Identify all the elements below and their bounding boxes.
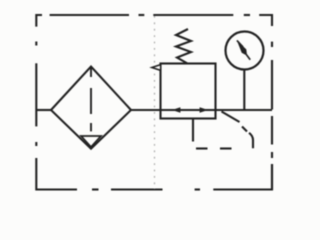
gauge needle pivot line (237, 40, 243, 47)
wire : line from filter to regulator (131, 109, 161, 111)
gauge needle (237, 40, 247, 56)
enclosure border : right edge (271, 42, 273, 190)
pilot line : horizontal dash 1 (220, 147, 232, 149)
pilot line (dashed feedback loop) : diagonal dash 1 (222, 112, 240, 123)
wire : flow path through regulator body (161, 109, 216, 111)
wire : inlet line from left border to filter (36, 109, 51, 111)
pilot line : diagonal dash 2 (242, 127, 247, 132)
vent stub below regulator (192, 119, 194, 142)
filter F1 body (diamond) (51, 67, 131, 149)
pressure gauge G1 (circle) (226, 32, 264, 70)
filter element (dashed vertical line) (90, 68, 92, 131)
relief arrow on regulator top-left corner (152, 65, 161, 71)
drain (triangle at filter bottom) (81, 136, 101, 147)
flow arrowhead right (inside regulator) (200, 107, 209, 112)
enclosure border : left edge (35, 42, 37, 147)
wire : outlet line from regulator to right border (216, 109, 273, 111)
pilot line : horizontal dash 2 (196, 147, 208, 149)
gauge stem (243, 70, 245, 111)
enclosure border : bottom edge (36, 158, 272, 190)
spring (zigzag above regulator) (176, 29, 191, 64)
pilot line : corner dash (249, 133, 253, 148)
compartment divider (faint dotted centre line) (154, 16, 156, 189)
regulator R1 body (square) (161, 64, 216, 119)
gauge needle tail (246, 55, 250, 60)
enclosure assembly dash-dot border : top edge (36, 15, 272, 27)
flow arrowhead left (inside regulator) (172, 107, 181, 112)
